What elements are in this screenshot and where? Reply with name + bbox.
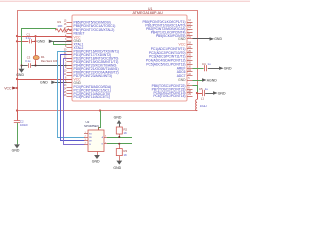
U1 right pin 28 PC5(OSC2/PCINT13)	[187, 92, 193, 94]
svg-text:1u: 1u	[207, 62, 211, 66]
svg-text:15: 15	[64, 20, 67, 23]
capacitor C4	[204, 65, 206, 71]
svg-text:1K: 1K	[124, 153, 128, 157]
U1 right pin 18 VCC	[187, 44, 193, 46]
U1 right pin 27 PC4(ADC4/SDA/PCINT12)	[187, 60, 193, 62]
capacitor C3	[28, 63, 30, 68]
wire C2 to gnd	[17, 123, 19, 145]
U1 left pin 7 XTAL1	[67, 44, 73, 46]
U1 left pin 32 PD2(PCINT18/INT0/OC2B/T0)	[67, 58, 73, 60]
ground sym under R3	[116, 161, 122, 165]
wire blue TXD	[61, 55, 85, 141]
U1 right pin 20 AREF	[187, 68, 193, 70]
svg-text:PC6(TOSC/PCINT14): PC6(TOSC/PCINT14)	[153, 94, 185, 98]
U1 left pin 3 GND	[67, 40, 73, 42]
U2 right pin 6 A	[104, 137, 107, 139]
U1 left pin 24 PC1(PCINT9/ADC1/SCL)	[67, 90, 73, 92]
capacitor C1	[29, 39, 31, 43]
svg-text:1: 1	[85, 132, 86, 134]
svg-text:GND: GND	[12, 149, 20, 153]
svg-text:10uH: 10uH	[200, 104, 207, 108]
svg-text:2: 2	[85, 136, 86, 138]
svg-text:ADC7: ADC7	[177, 74, 186, 78]
svg-text:AGND: AGND	[207, 78, 218, 82]
U2 left pin 2 RE	[84, 137, 88, 139]
wire A y137	[107, 137, 132, 139]
U1 left pin 4 VCC	[67, 37, 73, 39]
ground sym left x21.5	[21, 66, 23, 69]
U1 right pin 29 PC6(TOSC/PCINT14)	[187, 96, 193, 98]
U1 left pin 16 PB6(PCINT6/OC1A/TOSC1)	[67, 26, 73, 28]
U1 left pin 1 PD3(PCINT19/OC2B/INT1/T1)	[67, 61, 73, 63]
svg-text:Res Semi 10K: Res Semi 10K	[41, 59, 58, 63]
wire B y143.8	[107, 143, 132, 145]
svg-text:GND: GND	[224, 67, 232, 71]
U1 left pin 25 PC2(PCINT10/ADC2/T0)	[67, 93, 73, 95]
svg-text:16: 16	[64, 23, 67, 26]
capacitor C5	[197, 93, 202, 95]
svg-text:VCC: VCC	[4, 86, 12, 90]
svg-text:PC3(PCINT11/ADC3/T1): PC3(PCINT11/ADC3/T1)	[74, 95, 110, 99]
U1 right pin 19 ADC6	[187, 71, 193, 73]
svg-text:28: 28	[188, 61, 191, 64]
resistor R1	[56, 29, 70, 32]
U1 left pin 26 PC3(PCINT11/ADC3/T1)	[67, 96, 73, 98]
svg-text:GND: GND	[178, 37, 186, 41]
wire cyan RXD	[58, 52, 85, 138]
U1 left pin 6 VCC	[67, 79, 73, 81]
svg-text:U1: U1	[148, 7, 152, 11]
ground sym bottom left	[14, 144, 20, 148]
svg-text:3: 3	[85, 139, 86, 141]
wire VCC to U2	[99, 109, 101, 111]
svg-text:GND: GND	[16, 73, 24, 77]
capacitor C2	[14, 120, 20, 122]
U1 right pin 24 PC1(ADC1/PCINT9/T1)	[187, 48, 193, 50]
svg-text:D1: D1	[41, 55, 45, 59]
U2 left pin 4 DI	[84, 144, 88, 146]
U1 left pin 17 PB7(PCINT7/OC1B/XTAL2)	[67, 29, 73, 31]
U1 left pin 9 PD5(PCINT21/OC0B/T1/AIN1)	[67, 68, 73, 70]
svg-text:0.1u: 0.1u	[26, 36, 32, 40]
svg-text:GND: GND	[214, 37, 222, 41]
U1 right pin 22 ADC7	[187, 75, 193, 77]
U1 left pin 2 PD4(PCINT20/XCK/T0/AIN0)	[67, 65, 73, 67]
svg-text:GND: GND	[113, 166, 121, 170]
U1 left pin 10 PD6(PCINT22/OC0A/AIN0/T2)	[67, 72, 73, 74]
junction dots left rail	[16, 35, 18, 37]
svg-text:ATMEGA168P-AU: ATMEGA168P-AU	[133, 11, 164, 15]
wire VCC ring	[18, 11, 198, 94]
svg-text:100nF: 100nF	[20, 123, 28, 127]
svg-text:C3: C3	[27, 55, 31, 59]
svg-text:GND: GND	[218, 91, 226, 95]
diode D1	[35, 36, 37, 55]
U1 right pin 8 PB7(TOSC2/PCINT23)	[187, 89, 193, 91]
svg-text:0.1u: 0.1u	[25, 59, 31, 63]
wire D1 down	[35, 60, 37, 65]
svg-text:C1: C1	[27, 32, 31, 36]
svg-text:GND: GND	[92, 159, 100, 163]
ground sym under U2	[94, 155, 100, 159]
inductor L1	[196, 100, 197, 111]
svg-text:10K: 10K	[58, 24, 63, 28]
svg-text:RO: RO	[89, 133, 92, 135]
wire C1 branch y41.3	[17, 41, 28, 43]
IC U1 body	[72, 15, 187, 101]
power port AGND y80	[193, 80, 203, 82]
U1 left pin 30 PD0(PCINT16/RXD/TXD/INT1)	[67, 51, 73, 53]
U2 left pin 3 DE	[84, 140, 88, 142]
power port GND right y68.2	[219, 67, 224, 70]
svg-text:C5: C5	[199, 87, 203, 91]
U1 right pin 12 PB0(PCINT0/CLKO/ICP1/T1)	[187, 22, 193, 24]
U1 right pin 8 PB5(SCK0/PCINT5)	[187, 35, 193, 37]
U1 right pin 28 PC5(ADC5/SCL/PCINT13)	[187, 64, 193, 66]
wire green R1 feed	[22, 29, 56, 66]
U1 left pin 15 PB5(PCINT5/SCK/MOSI)	[67, 22, 73, 24]
U2 right pin 7 B	[104, 143, 107, 145]
wire AVCC y85.8	[193, 86, 198, 94]
svg-text:7: 7	[105, 142, 106, 144]
svg-text:6: 6	[105, 136, 106, 138]
U1 left pin 8 XTAL2	[67, 47, 73, 49]
svg-text:C4: C4	[202, 62, 206, 66]
U1 right pin 5 GND	[187, 80, 193, 82]
wire VCC branch y36	[17, 36, 72, 38]
U1 right pin 25 PC2(ADC2/PCINT10/T0)	[187, 52, 193, 54]
svg-text:GND: GND	[114, 116, 122, 120]
wire gnd y41.3	[53, 41, 73, 43]
wire right rail to inductor	[197, 93, 199, 100]
resistor R3	[119, 144, 121, 149]
power port GND y93	[213, 91, 218, 94]
wire node y65.5	[22, 65, 28, 67]
svg-text:4: 4	[85, 143, 86, 145]
power port GND right y38.9	[193, 38, 210, 40]
sheet border top	[0, 0, 250, 2]
U2 bottom pin 5	[97, 152, 99, 156]
svg-text:27: 27	[188, 58, 191, 61]
U2 left pin 1 RO	[84, 133, 88, 135]
svg-text:L1: L1	[201, 96, 205, 100]
svg-text:SP3485EN: SP3485EN	[84, 124, 99, 128]
U1 left pin 29 RESET	[67, 33, 73, 35]
svg-text:GND: GND	[178, 78, 186, 82]
svg-text:5: 5	[188, 77, 190, 80]
wire AREF y68.2	[193, 68, 204, 70]
wire purple DE	[64, 59, 85, 145]
U1 right pin 13 PB1(PCINT1/SS/OC1A/T0)	[187, 25, 193, 27]
svg-text:1K: 1K	[124, 131, 128, 135]
U1 right pin 14 PB2(PCINT2/MOSI/OC2A)	[187, 29, 193, 31]
svg-text:GND: GND	[37, 40, 45, 44]
resistor R2	[116, 127, 122, 134]
wire rail down to C2	[17, 111, 19, 121]
svg-text:VCC: VCC	[179, 42, 187, 46]
svg-text:18: 18	[188, 41, 191, 44]
svg-text:29: 29	[188, 93, 191, 96]
U1 right pin 26 PC3(ADC3/PCINT11/T1)	[187, 56, 193, 58]
U1 left pin 11 PD7(PCINT23/AIN1/INT3)	[67, 75, 73, 77]
svg-text:1u: 1u	[205, 87, 209, 91]
U1 right pin 7 PB6(TOSC1/PCINT22)	[187, 85, 193, 87]
transceiver U2 body	[88, 130, 104, 152]
U1 right pin 21 GND	[187, 38, 193, 40]
svg-text:GND: GND	[40, 81, 48, 85]
U1 right pin 7 PB4(T1/CLKO/PCINT4)	[187, 32, 193, 34]
wire green XTAL1 elbow	[54, 42, 73, 45]
U1 left pin 23 PC0(PCINT8/ADC0/SDA)	[67, 87, 73, 89]
U1 left pin 31 PD1(PCINT17/TXD/INT2)	[67, 54, 73, 56]
wire VCC branch y79	[17, 79, 72, 81]
U2 top pin 8	[98, 127, 100, 130]
U1 left pin 5 GND	[67, 82, 73, 84]
svg-text:20: 20	[188, 65, 191, 68]
